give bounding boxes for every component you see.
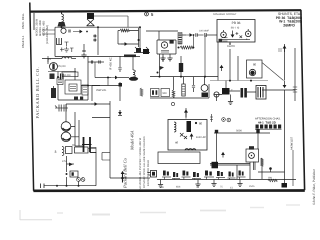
switch SW1 xyxy=(268,177,277,182)
capacitor pair C6 C7 xyxy=(88,60,104,63)
rectifier tube V8 xyxy=(61,132,71,142)
rectifier element xyxy=(187,121,192,132)
svg-text:25,000: 25,000 xyxy=(58,65,66,68)
arrow node A xyxy=(220,66,223,72)
wire vertical right xyxy=(293,48,297,101)
resistor network row xyxy=(151,89,160,97)
tube filament F5 xyxy=(204,171,214,180)
RC ladder row xyxy=(255,125,282,130)
wires mid-left xyxy=(48,56,100,100)
detector box xyxy=(157,40,176,54)
resistor R9 banded xyxy=(182,77,185,96)
ground G4 xyxy=(228,95,233,105)
tube V1 6D6 xyxy=(61,28,88,33)
label: fine print note column 3 xyxy=(147,160,150,186)
antenna coil L1 xyxy=(58,11,66,27)
node mark 1 xyxy=(222,118,226,122)
vertical drop xyxy=(66,156,68,172)
capacitor C4a xyxy=(196,33,204,37)
lower power box xyxy=(158,152,200,164)
output transformer T2 xyxy=(256,86,266,100)
svg-text:500: 500 xyxy=(163,92,168,95)
coil L8 xyxy=(62,147,64,156)
bus verticals xyxy=(217,133,259,162)
power transformer T3 xyxy=(75,137,92,152)
bottom marks row xyxy=(74,97,83,100)
node 5 mark xyxy=(145,12,154,17)
label: speaker socket xyxy=(213,13,237,16)
wire to rectifier xyxy=(66,103,110,106)
label: handwritten Packard Bell Co xyxy=(123,157,128,189)
svg-text:6D6: 6D6 xyxy=(176,186,181,189)
svg-text:26MFD: 26MFD xyxy=(283,24,295,28)
label 25000 xyxy=(58,65,66,68)
speaker socket box PR36 xyxy=(217,20,255,43)
resistor block R5 xyxy=(82,85,88,95)
capacitor C8 xyxy=(118,56,121,72)
ground G7 xyxy=(211,180,216,187)
svg-text:46: 46 xyxy=(175,141,179,145)
resistor block R2 xyxy=(57,78,63,85)
wire vertical C xyxy=(237,56,239,81)
component D1 xyxy=(118,110,122,116)
label: serial vertical xyxy=(291,136,294,150)
resistor R8 xyxy=(172,77,175,98)
resistor box R7 xyxy=(161,89,170,97)
node mark 5 above box xyxy=(171,102,174,105)
wire jog xyxy=(92,117,110,119)
wire across xyxy=(102,153,110,161)
X fuse marks xyxy=(180,133,187,139)
B+ bus wire xyxy=(214,130,270,134)
svg-text:80: 80 xyxy=(253,63,257,67)
rectifier socket box V9 xyxy=(246,149,259,162)
svg-text:PACKARD BELL CO.: PACKARD BELL CO. xyxy=(35,67,40,119)
verticals bottom xyxy=(237,158,262,179)
svg-text:PAGE 9-1: PAGE 9-1 xyxy=(21,35,25,48)
socket pin P1 xyxy=(221,30,227,42)
label IF 456 xyxy=(109,57,113,70)
label: fine print note column 2 xyxy=(143,136,146,188)
label 3 xyxy=(55,150,57,154)
AVC wire with arrow xyxy=(95,62,129,86)
capacitor C15 xyxy=(93,27,98,55)
wire socket to bus xyxy=(227,42,235,48)
dark bar component xyxy=(124,55,136,58)
socket key pin xyxy=(231,31,242,39)
svg-text:26MFD: 26MFD xyxy=(227,45,235,48)
diode D2 xyxy=(67,163,75,167)
coil L7 xyxy=(185,149,196,151)
grid element xyxy=(56,38,62,45)
electrolytic C12 xyxy=(222,81,233,95)
pot P3 xyxy=(214,92,219,101)
RF stage box xyxy=(55,27,140,56)
box comp xyxy=(66,147,89,154)
svg-text:44-1 T&B 2D: 44-1 T&B 2D xyxy=(258,120,276,124)
small marks bottom box xyxy=(60,48,74,53)
ground G6 xyxy=(195,180,200,187)
capacitor C10 xyxy=(157,54,165,77)
tube V5 78 xyxy=(48,58,58,71)
svg-text:115V AC: 115V AC xyxy=(196,136,206,139)
heavy line pair xyxy=(210,162,250,169)
svg-text:25M VOL: 25M VOL xyxy=(96,89,107,92)
label: page index PACK.BELL PAGE 9-1 xyxy=(21,13,25,48)
wire vertical D xyxy=(292,150,294,186)
volume control box xyxy=(92,86,120,102)
svg-text:80: 80 xyxy=(199,122,203,126)
ground G5 xyxy=(158,180,163,188)
tube filament F4 xyxy=(192,172,201,180)
label: PACKARD BELL CO. xyxy=(35,67,40,119)
label 46 bottom xyxy=(161,185,255,190)
label: handwritten Model 46A xyxy=(130,130,135,151)
choke L4 xyxy=(179,56,183,76)
line y172 xyxy=(258,167,285,172)
dark cluster xyxy=(170,40,174,44)
resistor block R4 xyxy=(65,80,81,94)
resistor R6 xyxy=(140,88,143,96)
wire links to right column xyxy=(62,145,96,163)
wire top bus xyxy=(55,26,141,28)
label 115V AC xyxy=(196,136,206,139)
resistor R10 xyxy=(261,158,264,166)
label: copyright John F. Rider Publisher xyxy=(312,168,316,205)
svg-text:100 MMF: 100 MMF xyxy=(199,30,210,33)
ground G2 xyxy=(160,54,165,61)
grid loop circuit xyxy=(118,28,140,47)
wire collect xyxy=(214,91,256,95)
tube filament F1 xyxy=(162,171,171,180)
filter wires xyxy=(71,112,79,146)
wire horizontal to border xyxy=(262,90,295,146)
wire stubs left xyxy=(42,30,55,34)
choke bars xyxy=(61,74,64,80)
svg-text:(CHASSIS 46A): (CHASSIS 46A) xyxy=(46,25,49,44)
component cluster xyxy=(66,171,79,177)
arrow up in box xyxy=(190,134,193,140)
capacitor C11 xyxy=(192,77,195,92)
tube filament F6 xyxy=(216,171,225,180)
arrow node B xyxy=(222,153,225,158)
main bus wire xyxy=(150,76,218,78)
bottom left wire xyxy=(41,184,97,189)
filament bus xyxy=(110,172,296,183)
resistor R1 xyxy=(178,46,195,49)
rectifier tube V7 xyxy=(61,104,71,131)
resistor block R3 xyxy=(62,72,78,77)
socket cap V9 xyxy=(249,146,255,170)
faint bus xyxy=(210,80,268,82)
ground G3 xyxy=(167,54,172,61)
power box outline xyxy=(168,120,207,151)
tube filament F3 xyxy=(182,171,191,180)
ground G8 xyxy=(237,180,242,187)
wire vertical B xyxy=(229,49,231,81)
svg-text:IF 456 KC: IF 456 KC xyxy=(109,57,113,70)
tube socket V2 pins xyxy=(134,47,150,54)
tube V6 cluster xyxy=(201,35,208,97)
label 46 xyxy=(175,141,179,145)
tuning capacitor C3 xyxy=(81,44,86,58)
coil L3 xyxy=(42,57,76,59)
svg-text:A43W1157: A43W1157 xyxy=(291,136,294,150)
svg-text:47M: 47M xyxy=(62,160,67,163)
transformer T1 xyxy=(87,13,95,26)
svg-text:DYNAMIC SPKR. ALL ARE SAME CHA: DYNAMIC SPKR. ALL ARE SAME CHASSIS xyxy=(143,136,146,188)
socket pins X xyxy=(77,178,85,182)
label: fine print note column 1 xyxy=(139,137,142,190)
socket inner wire xyxy=(219,38,251,42)
svg-text:(W-I 4): (W-I 4) xyxy=(231,27,240,30)
svg-text:3: 3 xyxy=(55,150,57,154)
small rect xyxy=(90,148,96,153)
svg-text:NO MODEL 46X PM SPKR = MODEL 4: NO MODEL 46X PM SPKR = MODEL 46D W xyxy=(139,137,142,190)
wire with down arrow xyxy=(278,44,286,88)
tube filament F8 xyxy=(238,171,246,180)
svg-text:Model 46A: Model 46A xyxy=(130,130,135,151)
label: afterneon chassis note xyxy=(255,118,281,125)
wire osc to grid xyxy=(94,16,128,27)
svg-text:SPEAKER SOCKET: SPEAKER SOCKET xyxy=(213,13,237,16)
capacitor C2 xyxy=(64,42,69,52)
svg-text:PACK. BELL: PACK. BELL xyxy=(21,13,25,29)
wire drops xyxy=(67,152,97,186)
svg-text:5000: 5000 xyxy=(236,130,242,133)
svg-text:©John F. Rider, Publisher: ©John F. Rider, Publisher xyxy=(312,168,316,205)
label: model list xyxy=(36,19,50,44)
label: shunts table xyxy=(276,12,302,27)
choke coil L6 xyxy=(174,122,176,132)
capacitor C9 xyxy=(119,82,123,101)
coil to speaker plug xyxy=(129,56,138,81)
svg-text:50,000: 50,000 xyxy=(64,74,72,77)
diagonal wire xyxy=(262,63,284,81)
tube filament F2 xyxy=(172,172,180,180)
capacitor C4 100MMF xyxy=(199,30,217,38)
node dot xyxy=(195,122,203,126)
node mark 2 xyxy=(227,118,231,122)
choke bars L5 xyxy=(241,88,247,98)
wire: inner border segment xyxy=(33,13,35,30)
IF coil L2 xyxy=(146,31,182,44)
AC plug xyxy=(148,171,157,178)
comp at bus left xyxy=(210,114,213,122)
bottom collector wire xyxy=(150,84,209,98)
capacitor stack C13 xyxy=(55,105,68,112)
tube V5 base blob xyxy=(48,56,76,79)
svg-text:25Z5: 25Z5 xyxy=(249,185,255,188)
tube V3 xyxy=(161,42,169,52)
electrolytic C5 xyxy=(51,86,56,98)
svg-text:+: + xyxy=(231,88,233,92)
wire vertical A xyxy=(217,42,219,81)
tube filament F7 xyxy=(228,172,236,180)
pad bottom right xyxy=(282,146,288,188)
socket pin P2 xyxy=(245,29,251,41)
rectifier box V4 80 xyxy=(247,60,263,78)
arrow into box xyxy=(185,108,188,119)
wire to detector xyxy=(182,34,194,48)
svg-text:PR 36: PR 36 xyxy=(232,21,241,25)
long vertical feed xyxy=(109,101,111,178)
